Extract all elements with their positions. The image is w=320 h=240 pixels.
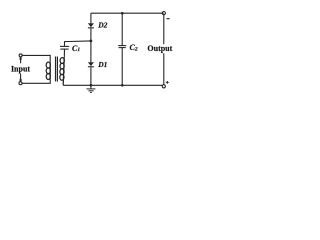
minus sign (output polarity top) (167, 18, 170, 20)
wire: C8 branch lower (121, 48, 123, 86)
output terminal bottom (circle) (162, 85, 165, 88)
node A (junction dot C1/D2/D1) (90, 40, 93, 43)
svg-text:Output: Output (147, 44, 172, 53)
transformer T1 primary winding (46, 62, 50, 79)
capacitor C8 plates (118, 46, 126, 48)
transformer T1 core (56, 57, 58, 82)
svg-text:D2: D2 (97, 21, 107, 30)
capacitor C1 plates (60, 46, 69, 49)
node: junction dot diode branch / bottom rail (90, 84, 93, 87)
svg-text:C1: C1 (72, 44, 80, 53)
wire: output right vertical upper (163, 15, 165, 44)
node: junction dot C8 / top rail (121, 12, 124, 15)
wire: C8 branch upper (121, 13, 123, 45)
input terminal bottom (circle) (19, 82, 22, 85)
wire: input bottom stub up (20, 74, 22, 82)
wire: diode branch top (rail corner down to D2) (90, 13, 92, 23)
plus sign (output polarity bottom) (166, 81, 169, 84)
wire: input bottom horizontal (22, 79, 50, 83)
svg-text:Input: Input (11, 65, 30, 74)
input terminal top (circle) (19, 54, 22, 57)
diode D1 (88, 62, 94, 67)
svg-text:D1: D1 (97, 60, 107, 69)
wire: C1 top lead and horizontal to junction (65, 41, 91, 47)
svg-text:C2: C2 (130, 43, 138, 52)
wire: input top stub down (20, 57, 22, 63)
node: junction dot C8 / bottom rail (121, 84, 124, 87)
wire: output right vertical lower (163, 53, 165, 84)
diode D2 (88, 23, 94, 28)
wire: bottom rail (63, 84, 162, 86)
wire: D2 cathode to junction A (90, 28, 92, 62)
transformer T1 secondary winding (60, 58, 65, 86)
wire: input top horizontal (22, 55, 50, 62)
ground (87, 85, 96, 92)
output terminal top (circle) (162, 12, 165, 15)
wire: secondary top lead up to C1 (63, 49, 65, 58)
wire: D1 cathode down to bottom rail (90, 67, 92, 85)
wire: top rail (91, 12, 164, 14)
